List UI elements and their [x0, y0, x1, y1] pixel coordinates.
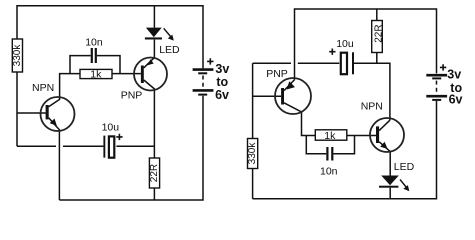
svg-text:PNP: PNP — [266, 68, 288, 80]
svg-text:PNP: PNP — [121, 89, 143, 101]
svg-text:22R: 22R — [374, 24, 385, 42]
svg-text:to: to — [216, 75, 228, 89]
svg-text:10u: 10u — [336, 38, 354, 50]
svg-text:6v: 6v — [215, 88, 229, 102]
svg-text:NPN: NPN — [361, 100, 383, 112]
svg-text:330k: 330k — [12, 44, 23, 67]
svg-text:1k: 1k — [90, 69, 102, 81]
svg-text:1k: 1k — [324, 130, 336, 142]
svg-text:3v: 3v — [215, 62, 229, 76]
svg-text:330k: 330k — [247, 142, 258, 165]
svg-text:LED: LED — [394, 161, 415, 173]
svg-text:3v: 3v — [447, 67, 461, 81]
svg-text:LED: LED — [159, 44, 180, 56]
svg-text:10n: 10n — [320, 165, 338, 177]
svg-text:22R: 22R — [149, 164, 160, 182]
svg-text:10u: 10u — [102, 122, 120, 134]
svg-text:NPN: NPN — [32, 82, 54, 94]
svg-text:6v: 6v — [449, 92, 463, 106]
svg-text:10n: 10n — [85, 37, 103, 49]
